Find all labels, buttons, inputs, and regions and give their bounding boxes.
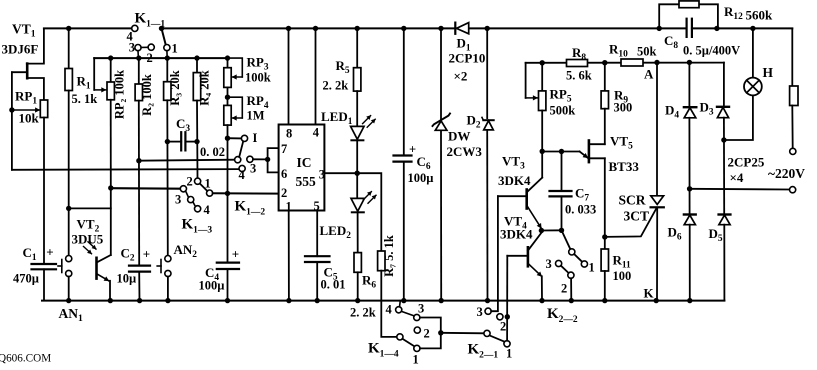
- svg-text:8: 8: [286, 127, 292, 141]
- wire RP5 bottom down: [541, 111, 543, 152]
- node lamp / D3-D5 midpoint: [721, 137, 726, 142]
- transistor VT4 3DK4: [507, 233, 542, 301]
- node R6 / rail: [355, 298, 360, 303]
- node R2 top: [136, 55, 141, 60]
- svg-text:7: 7: [281, 142, 287, 156]
- node C8 right / rail: [714, 26, 719, 31]
- wire RP2 wiper arrow: [94, 89, 106, 91]
- capacitor C6 100u electrolytic: [394, 156, 412, 162]
- svg-text:1: 1: [506, 347, 512, 361]
- resistor R10 50k body: [621, 59, 643, 66]
- svg-text:0. 02: 0. 02: [200, 145, 225, 159]
- node C3 left: [165, 139, 170, 144]
- svg-text:2. 2k: 2. 2k: [350, 306, 376, 320]
- wire RP5 wiper tie: [525, 63, 527, 98]
- contact 1 wiper of K1-3: [207, 190, 213, 196]
- wire to K1-2 contact I: [228, 137, 242, 139]
- svg-text:×4: ×4: [730, 170, 744, 185]
- potentiometer RP1 10k body: [40, 100, 47, 118]
- node SCR cathode / rail: [654, 298, 659, 303]
- wire bus to RP3: [227, 58, 229, 68]
- wire K1-4 contact 4 to 3: [402, 311, 415, 316]
- node R2 bottom / K1-2 wiper branch: [136, 158, 141, 163]
- wire K1-3 wiper to 555 pin 2: [213, 192, 279, 194]
- wire VT1 gate bus down left edge: [11, 72, 13, 170]
- node R1-AN1 / VT2 collector junction: [66, 206, 71, 211]
- svg-text:100k: 100k: [245, 71, 271, 85]
- resistor R3 20k body: [164, 82, 171, 101]
- wire R11 bottom to rail: [604, 271, 606, 301]
- wire 555 pin 5 to C5: [316, 211, 318, 257]
- svg-text:RP₂ 100k: RP₂ 100k: [113, 70, 127, 119]
- wire RP3 to RP4: [227, 87, 229, 105]
- wire D3 to D5: [723, 118, 725, 215]
- wire C6 top: [403, 28, 405, 155]
- contact 3 of K2-2: [556, 260, 562, 266]
- svg-text:1: 1: [589, 261, 595, 275]
- node VT2 emitter / rail junction: [108, 298, 113, 303]
- wire RP4 wiper tie: [228, 97, 243, 118]
- wire R1 top to rail: [68, 28, 70, 68]
- terminal AC 220V upper: [790, 148, 796, 154]
- wire RP2 bottom column to VT2 collector: [110, 188, 112, 255]
- svg-text:0. 5µ/400V: 0. 5µ/400V: [683, 44, 740, 58]
- wire RP4 bottom down to C4: [227, 125, 229, 263]
- wire C5 bottom to rail: [316, 262, 318, 301]
- node AN1 / rail junction: [66, 298, 71, 303]
- contact 1 of K1-4: [414, 345, 420, 351]
- svg-text:500k: 500k: [550, 104, 576, 118]
- svg-text:2: 2: [500, 320, 506, 334]
- capacitor C8 0.5u/400V: [687, 19, 692, 37]
- svg-text:R₄ 20k: R₄ 20k: [198, 70, 212, 105]
- wire RP1 bottom to C1 top: [43, 118, 45, 265]
- svg-text:2CP25: 2CP25: [728, 155, 765, 170]
- svg-text:100: 100: [613, 269, 632, 283]
- wire K1-4 contact 3 down: [420, 318, 441, 330]
- svg-text:3: 3: [129, 41, 135, 55]
- wire to 555 pin 6: [268, 159, 279, 172]
- node R9 top: [602, 60, 607, 65]
- svg-text:555: 555: [296, 174, 317, 189]
- resistor R6 2.2k body: [354, 253, 361, 273]
- contact 2 of K2-1: [497, 314, 503, 320]
- wire bridge contacts 3-2 of K1-1: [141, 46, 148, 48]
- resistor R12 560k body: [679, 1, 699, 8]
- wire bottom rail (ground bus): [42, 300, 724, 302]
- contact 1 of K2-1: [504, 341, 510, 347]
- potentiometer RP5 500k body: [539, 91, 546, 111]
- node C7 top tie: [559, 149, 564, 154]
- contact 2 of K1-1: [148, 44, 154, 50]
- wire 555 pin 8 to top rail: [288, 28, 290, 124]
- wiper contact of K2-1: [484, 330, 490, 336]
- wire R7 bottom to K1-4 wiper: [381, 271, 397, 337]
- wire D2 bottom to rail: [486, 130, 488, 300]
- node D6 / rail: [687, 298, 692, 303]
- svg-text:IC: IC: [297, 155, 312, 170]
- svg-text:470µ: 470µ: [13, 272, 39, 286]
- wiper contact of K1-4: [397, 334, 403, 340]
- node C3 right: [194, 139, 199, 144]
- contact 2 of K2-2: [568, 272, 574, 278]
- capacitor C3 0.02: [181, 132, 185, 150]
- wire C7 top lead: [561, 152, 563, 192]
- node RP5-VT3 collector-emitter line: [540, 149, 545, 154]
- node D4 top: [687, 60, 692, 65]
- svg-text:2: 2: [561, 282, 567, 296]
- wire C2 bottom to rail: [138, 272, 140, 301]
- capacitor C5 0.01: [305, 256, 330, 262]
- svg-text:4: 4: [386, 303, 393, 317]
- node DW / top rail: [438, 26, 443, 31]
- wire K1-4 contact 1 up: [420, 336, 441, 349]
- wire C1 bottom to rail: [43, 269, 45, 300]
- contact 3 of K1-2: [247, 156, 253, 162]
- node C4 / rail junction: [225, 298, 230, 303]
- svg-text:0. 033: 0. 033: [565, 203, 596, 217]
- node K1-4 to K2-1 tie: [438, 330, 443, 335]
- svg-text:Q606.COM: Q606.COM: [0, 353, 51, 365]
- svg-text:3: 3: [477, 305, 483, 319]
- contact 2 of K1-3: [195, 178, 201, 184]
- wire node to VT2 collector column: [69, 207, 111, 209]
- svg-text:2: 2: [281, 186, 287, 200]
- node VT3e-VT4c: [539, 228, 544, 233]
- wire 555 pin 3 to R7: [324, 173, 381, 251]
- wire K1-3 wiper arm: [200, 184, 207, 191]
- wire to K1-3 contact 3: [111, 187, 181, 190]
- wire to RP5: [541, 63, 543, 91]
- wiper contact of K2-2: [569, 249, 575, 255]
- node AN2 / rail junction: [165, 298, 170, 303]
- svg-text:2: 2: [187, 175, 193, 189]
- potentiometer RP4 1M body: [224, 105, 231, 125]
- op-amp U1 IC 555 timer: [279, 125, 325, 211]
- wire to 555 pin 7: [268, 148, 279, 159]
- wire bus to RP2: [110, 58, 112, 82]
- wire VT5 base2 bottom to gate node: [604, 158, 606, 237]
- svg-text:H: H: [763, 65, 774, 80]
- svg-text:3: 3: [418, 302, 424, 316]
- wire K2-2 wiper arm: [574, 254, 582, 262]
- svg-text:4: 4: [313, 126, 320, 140]
- diode D2: [482, 117, 494, 129]
- wire D5 bottom to rail end: [723, 225, 725, 301]
- svg-text:1M: 1M: [247, 109, 265, 123]
- wire AN1 bottom to rail: [68, 277, 70, 301]
- svg-text:100µ: 100µ: [408, 171, 434, 185]
- wire 555 pin 4 to top rail: [315, 28, 317, 124]
- resistor R5 2.2k body: [354, 68, 361, 91]
- wire R8-R10 supply line: [526, 62, 724, 64]
- node DW / rail: [439, 298, 444, 303]
- wire RP3 wiper tie: [228, 58, 243, 77]
- light arrows into VT2: [84, 242, 97, 254]
- wire K2-2 contact 3 to 2: [561, 266, 569, 273]
- wire R4 bottom down to K1-3 contact 2: [196, 101, 199, 179]
- transistor VT2 3DU5 phototransistor: [97, 255, 111, 301]
- svg-text:BT33: BT33: [609, 159, 640, 174]
- contact 4 of K1-2: [239, 165, 245, 171]
- wire D6 bottom to rail: [689, 225, 691, 301]
- contact I of K1-2: [241, 135, 247, 141]
- contact mid of K1-3: [188, 197, 194, 203]
- node VT4 emitter / rail: [539, 298, 544, 303]
- svg-text:I: I: [253, 131, 258, 145]
- svg-text:K: K: [644, 286, 655, 301]
- node RP1 wiper junction: [9, 107, 14, 112]
- node C2 / rail junction: [137, 298, 142, 303]
- wire K2-1 wiper arm: [490, 335, 505, 341]
- resistor R9 300 body: [601, 91, 608, 109]
- wire K2-1 contact 3 up to VT3 base: [491, 196, 498, 311]
- contact 1 of K2-2: [581, 261, 587, 267]
- wire contact 1 to timing bus: [166, 51, 168, 58]
- wire K1-2 wiper arm: [239, 141, 243, 157]
- node R5 / rail: [355, 26, 360, 31]
- wire RP1 wiper arm with arrow: [12, 109, 40, 111]
- svg-text:+: +: [46, 245, 53, 260]
- wire top rail middle segment (K1-1 wiper to C8 left plate): [162, 27, 687, 29]
- node RP5 top: [540, 60, 545, 65]
- node C6 / rail: [401, 298, 406, 303]
- node A junction: [654, 60, 659, 65]
- potentiometer RP2 100k body: [107, 82, 114, 100]
- svg-text:2CW3: 2CW3: [447, 144, 483, 159]
- diode D5 2CP25: [719, 215, 731, 225]
- resistor R11 100 body: [601, 249, 608, 271]
- svg-text:R₇ 5. 1k: R₇ 5. 1k: [382, 235, 396, 277]
- node D2 / rail: [485, 298, 490, 303]
- svg-text:560k: 560k: [746, 8, 774, 23]
- resistor R4 20k body: [193, 73, 200, 101]
- wire timing resistor bus: [94, 57, 227, 59]
- zener diode DW 2CW3: [433, 114, 451, 131]
- wire AN2 bottom to rail: [167, 277, 169, 301]
- resistor R1 5.1k body: [65, 69, 72, 91]
- wire D2 top: [486, 28, 488, 118]
- wire R1 bottom down to AN1: [68, 91, 70, 256]
- terminal AC 220V lower: [790, 187, 796, 193]
- node pin3 / LED junction: [355, 171, 360, 176]
- wire K1-3 mid to contact 4: [193, 202, 196, 207]
- wire C6 bottom to rail: [403, 162, 405, 301]
- svg-text:3: 3: [175, 193, 181, 207]
- svg-text:2CP10: 2CP10: [449, 51, 486, 66]
- wire K2-1 contact 1 up to VT4 base: [506, 256, 508, 341]
- svg-text:1: 1: [413, 353, 419, 366]
- LED LED2: [351, 192, 376, 213]
- svg-text:5. 1k: 5. 1k: [72, 92, 98, 106]
- node pin4 / rail: [313, 26, 318, 31]
- svg-text:5. 6k: 5. 6k: [566, 69, 592, 83]
- svg-text:1: 1: [172, 42, 178, 56]
- wire right edge down to fuse: [791, 28, 793, 85]
- contact 3 of K1-3: [180, 186, 186, 192]
- node K2-2 / rail: [569, 298, 574, 303]
- resistor R8 5.6k body: [567, 60, 588, 67]
- wire R5 to LED1: [356, 91, 358, 126]
- node K1-1 wiper pivot on rail: [159, 26, 164, 31]
- wire contact 3 to timing bus: [137, 51, 139, 58]
- svg-text:6: 6: [281, 167, 287, 181]
- node RP3 top: [225, 55, 230, 60]
- wire D3 top lead from supply line: [723, 63, 725, 107]
- node RP2 bottom / K1-3 branch: [108, 185, 113, 190]
- node RP4 bottom / K1-2 contact I branch: [225, 136, 230, 141]
- svg-text:0. 01: 0. 01: [321, 278, 346, 292]
- node C5 / rail: [315, 298, 320, 303]
- transistor VT3 3DK4: [498, 151, 542, 228]
- node pin1 / rail: [286, 298, 291, 303]
- svg-text:+: +: [409, 143, 416, 157]
- capacitor C7 0.033: [550, 191, 572, 196]
- diode D6 2CP25: [684, 215, 696, 225]
- wire RP5 wiper arrow: [526, 97, 538, 99]
- wire R6 bottom to rail: [357, 272, 359, 300]
- contact 4 of K1-1: [132, 25, 138, 31]
- wire K1-1 wiper arm: [162, 28, 166, 44]
- resistor R2 100k body: [135, 84, 142, 101]
- transistor VT1 3DJ6F: [12, 64, 44, 100]
- node C8 left / rail: [657, 26, 662, 31]
- fuse FU: [790, 86, 798, 106]
- wire DW bottom to rail: [440, 131, 442, 301]
- svg-text:×2: ×2: [454, 69, 468, 84]
- node C7 bottom: [559, 228, 564, 233]
- wire node down to K2-2 wiper: [562, 230, 571, 249]
- svg-text:3DU5: 3DU5: [72, 232, 104, 247]
- node R11 / rail: [602, 298, 607, 303]
- svg-text:300: 300: [614, 101, 633, 115]
- svg-text:3: 3: [319, 168, 325, 182]
- contact 2 of K1-4: [414, 327, 420, 333]
- svg-text:10µ: 10µ: [117, 272, 137, 286]
- wire bus to R4: [196, 58, 198, 73]
- wire C3 right lead: [185, 141, 197, 143]
- wiper contact of K1-2: [235, 157, 241, 163]
- wire C7 bottom lead: [561, 196, 563, 230]
- node C6 / top rail: [401, 26, 406, 31]
- svg-text:3: 3: [250, 162, 256, 176]
- contact 4 of K1-3: [195, 206, 201, 212]
- wire top rail left segment to K1-1 contact 4: [44, 27, 132, 29]
- svg-text:3CT: 3CT: [624, 209, 650, 224]
- wire DW top: [440, 28, 442, 118]
- svg-text:DW: DW: [448, 129, 470, 144]
- wire R5 top to rail: [356, 28, 358, 67]
- svg-text:2: 2: [424, 327, 430, 341]
- svg-text:R₂ 100k: R₂ 100k: [140, 74, 154, 116]
- wire fuse to AC terminal: [791, 106, 793, 149]
- wire VT3e node to C7 bottom: [541, 229, 561, 231]
- node lamp / rail: [750, 26, 755, 31]
- capacitor C1 470u electrolytic: [32, 264, 57, 269]
- wire gate bus horizontal line to K1-2 contact 4: [12, 168, 239, 171]
- thyristor SCR 3CT: [605, 196, 664, 301]
- svg-text:SCR: SCR: [619, 193, 646, 208]
- wire RP3 wiper arrow: [232, 76, 242, 78]
- svg-text:R₃ 20k: R₃ 20k: [168, 70, 182, 105]
- wire R12 bypass loop: [659, 4, 718, 28]
- resistor R7 5.1k body: [378, 251, 385, 271]
- svg-text:4: 4: [239, 168, 246, 182]
- wire AC neutral line to terminal: [690, 188, 790, 191]
- node R1 / top rail junction: [66, 26, 71, 31]
- wire VT1 drain to top rail: [27, 28, 44, 63]
- wire lamp top lead: [752, 28, 754, 77]
- wire C3 left lead: [167, 141, 181, 143]
- wire to R11: [604, 237, 606, 249]
- wire RP2 wiper tie-down: [93, 58, 95, 90]
- lamp H: [744, 78, 762, 96]
- contact 4 of K1-4: [396, 307, 402, 313]
- capacitor C4 100u electrolytic: [217, 263, 239, 269]
- node contact 2 tie: [505, 314, 510, 319]
- wire R3 bottom down to AN2: [166, 100, 169, 255]
- transistor VT5 BT33 unijunction: [542, 141, 605, 163]
- svg-text:+: +: [232, 247, 239, 262]
- wire LED1 to LED2: [356, 140, 358, 198]
- wire top rail right segment (C8 right plate to right edge): [692, 27, 792, 29]
- wire R2 bottom down to C2: [138, 101, 140, 266]
- wire RP4 wiper arrow: [232, 117, 242, 119]
- wire R9 bottom to VT5 base1: [604, 109, 606, 145]
- wire D4 to D6: [688, 118, 690, 215]
- contact 1 of K1-1: [164, 45, 170, 51]
- svg-text:3DK4: 3DK4: [500, 227, 533, 242]
- node D2 / top rail: [485, 26, 490, 31]
- node RP2 top: [108, 55, 113, 60]
- potentiometer RP3 100k body: [224, 68, 231, 88]
- contact 3 of K1-4: [414, 314, 420, 320]
- LED LED1: [351, 116, 376, 141]
- node pin8 / rail: [286, 26, 291, 31]
- wire 555 pin 1 to rail: [288, 211, 290, 301]
- wire C4 bottom to rail: [227, 269, 229, 301]
- svg-text:3: 3: [546, 257, 552, 271]
- wire contact 4 stub to rail: [399, 301, 402, 307]
- svg-text:100µ: 100µ: [199, 279, 225, 293]
- node C4 top / 555 pin2 line junction: [225, 191, 230, 196]
- node SCR gate / R11 top: [602, 234, 607, 239]
- svg-text:~220V: ~220V: [768, 166, 805, 181]
- wire bus to R2: [138, 58, 140, 84]
- svg-text:3DK4: 3DK4: [498, 173, 531, 188]
- svg-text:50k: 50k: [637, 45, 657, 59]
- diode D4 2CP25: [684, 107, 696, 118]
- svg-text:10k: 10k: [19, 111, 40, 126]
- diode D3 2CP25: [717, 107, 729, 118]
- wire SCR anode from node A: [656, 63, 658, 196]
- node AC low / D4-D6 midpoint: [687, 186, 692, 191]
- wire K1-4 wiper arm: [402, 339, 414, 347]
- wire K1-4 node to K2-1 wiper: [441, 332, 484, 335]
- contact 3 of K1-1: [135, 45, 141, 51]
- node R4 top: [194, 55, 199, 60]
- contact 3 of K2-1: [485, 308, 491, 314]
- wire LED2 to R6: [357, 212, 359, 252]
- wire to K1-2 wiper: [139, 160, 235, 161]
- node R3 top: [165, 55, 170, 60]
- wire lamp bottom to D3-D5 node: [724, 95, 753, 140]
- wire K2-2 contact 2 to rail: [570, 278, 572, 300]
- node RP3-RP4 junction: [225, 95, 230, 100]
- wire R9 top: [604, 63, 606, 91]
- capacitor C2 10u electrolytic: [129, 266, 150, 272]
- pushbutton AN2: [157, 256, 171, 277]
